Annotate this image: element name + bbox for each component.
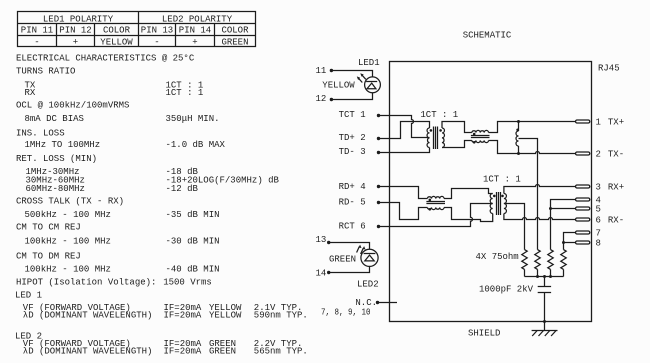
RJ45 contact pad pin 1 bbox=[576, 120, 590, 123]
svg-text:11: 11 bbox=[316, 66, 327, 76]
pin 6 label bbox=[596, 215, 625, 225]
resistor R1 75ohm bbox=[522, 250, 527, 270]
svg-text:PIN 14: PIN 14 bbox=[179, 25, 211, 35]
svg-text:HIPOT (Isolation Voltage):: HIPOT (Isolation Voltage): bbox=[16, 278, 156, 288]
wire pad5 lead bbox=[551, 208, 576, 210]
LED1 symbol bbox=[357, 73, 381, 93]
resistor R2 75ohm bbox=[535, 250, 540, 270]
common-mode choke CMC1 core bbox=[471, 136, 490, 138]
svg-text:LED1: LED1 bbox=[358, 58, 380, 68]
svg-text:YELLOW: YELLOW bbox=[322, 81, 355, 91]
junction dot TX- / autotransformer bottom bbox=[517, 152, 520, 155]
LED polarity table text bbox=[21, 15, 249, 48]
N.C. pins label, dot and lead bbox=[321, 298, 397, 317]
RJ45 contact pad pin 8 bbox=[576, 241, 590, 244]
svg-text:TD- 3: TD- 3 bbox=[339, 147, 366, 157]
svg-text:RX-: RX- bbox=[608, 215, 624, 225]
svg-text:SHIELD: SHIELD bbox=[468, 329, 500, 339]
CMC2 polarity dots bbox=[429, 199, 432, 211]
common-mode choke CMC1 bottom winding bbox=[472, 141, 489, 143]
svg-text:GREEN: GREEN bbox=[221, 37, 248, 47]
module outline box bbox=[390, 62, 592, 322]
resistor R3 75ohm bbox=[548, 250, 553, 270]
wire pad8 lead bbox=[564, 242, 576, 244]
resistor R4 75ohm bbox=[561, 250, 566, 270]
svg-text:1: 1 bbox=[596, 117, 601, 127]
transformer T1 primary winding bbox=[427, 128, 429, 148]
pin TD+2 label, dot and lead bbox=[339, 133, 390, 143]
pin TD-3 label, dot and lead bbox=[339, 147, 390, 157]
wire rail to capacitor C1 bbox=[544, 277, 546, 287]
svg-text:-40 dB MIN: -40 dB MIN bbox=[166, 265, 220, 275]
wire TD- to T1 primary bottom bbox=[390, 148, 430, 153]
wire RD- to CMC2 bottom bbox=[390, 203, 427, 220]
RJ45 contact pad pin 2 bbox=[576, 152, 590, 155]
chassis ground symbol bbox=[532, 331, 558, 337]
svg-text:CM TO DM REJ: CM TO DM REJ bbox=[16, 252, 81, 262]
svg-text:1CT : 1: 1CT : 1 bbox=[420, 110, 458, 120]
common-mode choke CMC2 core bbox=[426, 202, 445, 204]
wire LED2 cathode to pin14 bbox=[329, 266, 370, 272]
pin RD-5 label, dot and lead bbox=[339, 198, 390, 208]
transformer T2 core bbox=[497, 192, 501, 215]
svg-text:RET. LOSS (MIN): RET. LOSS (MIN) bbox=[16, 154, 97, 164]
svg-text:-35 dB MIN: -35 dB MIN bbox=[166, 210, 220, 220]
wire capacitor C1 to shield bbox=[544, 293, 546, 331]
junction dot TX+ / autotransformer top bbox=[517, 120, 520, 123]
CMC1 polarity dots bbox=[473, 133, 476, 144]
resistor R2 bottom lead bbox=[537, 269, 539, 276]
svg-text:PIN 12: PIN 12 bbox=[59, 25, 91, 35]
svg-text:RJ45: RJ45 bbox=[598, 64, 620, 74]
transformer T2 secondary winding bbox=[504, 194, 507, 214]
TX autotransformer winding bbox=[516, 122, 519, 154]
svg-text:LED 1: LED 1 bbox=[15, 291, 42, 301]
svg-text:-: - bbox=[154, 37, 159, 47]
wire TCT to T1 primary center tap (hops TD+) bbox=[390, 116, 430, 138]
pin RCT6 label, dot and lead bbox=[339, 222, 390, 232]
wire T1 secondary bottom to CMC1 bbox=[442, 141, 472, 148]
svg-text:TX+: TX+ bbox=[608, 117, 624, 127]
svg-text:LED1 POLARITY: LED1 POLARITY bbox=[43, 15, 114, 25]
svg-text:1CT : 1: 1CT : 1 bbox=[166, 88, 204, 98]
svg-text:YELLOW: YELLOW bbox=[209, 311, 242, 321]
RJ45 contact pad pin 7 bbox=[576, 231, 590, 234]
wire TX center tap to resistor R2 bbox=[519, 139, 538, 250]
wire pins 4/5 to resistor R3 bbox=[550, 209, 552, 250]
junction dot pins 4/5 bbox=[549, 207, 552, 210]
svg-text:IF=20mA: IF=20mA bbox=[164, 311, 202, 321]
svg-text:500kHz - 100 MHz: 500kHz - 100 MHz bbox=[25, 210, 111, 220]
svg-text:14: 14 bbox=[316, 269, 327, 279]
wire T2 secondary bottom to pad 6 (RX-, hops three drops) bbox=[504, 214, 576, 220]
pin 5 label bbox=[596, 204, 601, 214]
svg-text:2: 2 bbox=[596, 149, 601, 159]
transformer T1 secondary winding bbox=[442, 128, 444, 148]
svg-text:12: 12 bbox=[316, 94, 327, 104]
svg-text:8mA DC BIAS: 8mA DC BIAS bbox=[25, 114, 84, 124]
wire TD+ to T1 primary top bbox=[390, 122, 430, 139]
pin TCT1 label, dot and lead bbox=[339, 110, 390, 120]
wire RCT to T2 primary center tap (hops CMC2 out) bbox=[390, 204, 493, 227]
pin 4 label bbox=[596, 195, 601, 205]
wire CMC2 bottom to T2 primary bottom bbox=[444, 208, 493, 222]
svg-text:CM TO CM REJ: CM TO CM REJ bbox=[16, 223, 81, 233]
RJ45 contact pad pin 5 bbox=[576, 207, 590, 210]
svg-text:TCT 1: TCT 1 bbox=[339, 110, 366, 120]
svg-text:RCT 6: RCT 6 bbox=[339, 222, 366, 232]
RJ45 contact pad pin 3 bbox=[576, 185, 590, 188]
common-mode choke CMC2 bottom winding bbox=[427, 208, 444, 210]
svg-text:4X 75ohm: 4X 75ohm bbox=[476, 252, 519, 262]
wire T2 secondary top to pad 3 (RX+, hops TX drop) bbox=[504, 185, 576, 194]
common-mode choke CMC2 top winding bbox=[427, 196, 444, 198]
resistor R4 bottom lead bbox=[563, 269, 565, 276]
svg-text:100kHz - 100 MHz: 100kHz - 100 MHz bbox=[25, 265, 111, 275]
svg-text:TURNS RATIO: TURNS RATIO bbox=[16, 66, 75, 76]
svg-text:RD- 5: RD- 5 bbox=[339, 198, 366, 208]
pin 1 label bbox=[596, 117, 625, 127]
pin 8 label bbox=[596, 238, 601, 248]
svg-text:LED2 POLARITY: LED2 POLARITY bbox=[162, 15, 233, 25]
svg-text:-: - bbox=[34, 37, 39, 47]
svg-text:3: 3 bbox=[596, 182, 601, 192]
LED polarity table grid bbox=[18, 12, 256, 47]
resistor R3 bottom lead bbox=[550, 269, 552, 276]
LED2 symbol bbox=[357, 245, 379, 267]
svg-text:+: + bbox=[192, 37, 197, 47]
svg-text:COLOR: COLOR bbox=[221, 25, 249, 35]
svg-text:GREEN: GREEN bbox=[329, 255, 356, 265]
junction dot pins 7/8 bbox=[562, 241, 565, 244]
resistor R1 bottom lead bbox=[524, 269, 526, 276]
wire RD+ to CMC2 top bbox=[390, 187, 427, 199]
rail junction dots bbox=[536, 275, 552, 278]
wire T1 secondary top to CMC1 bbox=[442, 122, 472, 133]
wire pad4 to pad5 junction bbox=[551, 200, 576, 209]
transformer T2 primary winding bbox=[490, 194, 493, 214]
svg-text:-30 dB MIN: -30 dB MIN bbox=[166, 236, 220, 246]
svg-text:λD (DOMINANT WAVELENGTH): λD (DOMINANT WAVELENGTH) bbox=[23, 347, 153, 357]
svg-text:IF=20mA: IF=20mA bbox=[164, 347, 202, 357]
svg-text:PIN 13: PIN 13 bbox=[141, 25, 173, 35]
svg-text:OCL @ 100kHz/100mVRMS: OCL @ 100kHz/100mVRMS bbox=[16, 100, 129, 110]
svg-text:LED2: LED2 bbox=[357, 280, 379, 290]
TX autotransformer polarity dot bbox=[516, 129, 519, 132]
LED1 pin 12 label and dot bbox=[316, 94, 334, 104]
svg-text:SCHEMATIC: SCHEMATIC bbox=[463, 31, 512, 41]
wire CMC2 top to T2 primary top bbox=[444, 189, 493, 199]
svg-text:PIN 11: PIN 11 bbox=[21, 25, 53, 35]
common-mode choke CMC1 top winding bbox=[472, 130, 489, 132]
svg-text:λD (DOMINANT WAVELENGTH): λD (DOMINANT WAVELENGTH) bbox=[23, 311, 153, 321]
svg-text:1MHz TO 100MHz: 1MHz TO 100MHz bbox=[25, 140, 101, 150]
svg-text:5: 5 bbox=[596, 204, 601, 214]
transformer T1 polarity dots bbox=[430, 129, 442, 132]
wire LED1 cathode to pin12 bbox=[331, 93, 372, 100]
svg-text:ELECTRICAL CHARACTERISTICS @ 2: ELECTRICAL CHARACTERISTICS @ 25°C bbox=[16, 54, 195, 64]
junction dot shield / box bottom bbox=[543, 320, 546, 323]
wire pad7 to pad8 junction bbox=[564, 233, 576, 243]
capacitor C1 plates bbox=[538, 287, 551, 293]
RJ45 contact pad pin 6 bbox=[576, 218, 590, 221]
svg-text:-12 dB: -12 dB bbox=[166, 184, 199, 194]
pin 3 label bbox=[596, 182, 625, 192]
svg-text:1000pF 2kV: 1000pF 2kV bbox=[479, 285, 534, 295]
LED1 pin 11 label and dot bbox=[316, 66, 334, 76]
wire pins 7/8 to resistor R4 bbox=[563, 243, 565, 250]
transformer T2 polarity dots bbox=[493, 195, 504, 198]
common termination rail bbox=[525, 276, 564, 278]
wire pin11 to LED1 anode bbox=[331, 71, 372, 77]
svg-text:RX+: RX+ bbox=[608, 182, 624, 192]
svg-text:6: 6 bbox=[596, 215, 601, 225]
svg-text:-1.0 dB MAX: -1.0 dB MAX bbox=[166, 140, 226, 150]
svg-text:INS. LOSS: INS. LOSS bbox=[16, 129, 65, 139]
svg-text:7, 8, 9, 10: 7, 8, 9, 10 bbox=[321, 307, 371, 317]
svg-text:COLOR: COLOR bbox=[103, 25, 131, 35]
svg-text:565nm TYP.: 565nm TYP. bbox=[254, 347, 308, 357]
svg-text:RX: RX bbox=[25, 88, 36, 98]
svg-text:13: 13 bbox=[316, 235, 327, 245]
svg-text:GREEN: GREEN bbox=[209, 347, 236, 357]
electrical characteristics list bbox=[15, 54, 308, 357]
pin 7 label bbox=[596, 228, 601, 238]
RJ45 contact pad pin 4 bbox=[576, 198, 590, 201]
pin RD+4 label, dot and lead bbox=[339, 182, 390, 192]
svg-text:100kHz - 100 MHz: 100kHz - 100 MHz bbox=[25, 236, 111, 246]
svg-text:+: + bbox=[73, 37, 78, 47]
svg-text:60MHz-80MHz: 60MHz-80MHz bbox=[26, 184, 85, 194]
wire pin13 to LED2 anode bbox=[329, 243, 370, 250]
LED2 pin 14 label and dot bbox=[316, 269, 331, 279]
wire CMC1 top to pad 1 (TX+) bbox=[489, 122, 576, 133]
svg-text:1CT : 1: 1CT : 1 bbox=[483, 175, 521, 185]
svg-text:RD+ 4: RD+ 4 bbox=[339, 182, 366, 192]
svg-text:CROSS TALK (TX - RX): CROSS TALK (TX - RX) bbox=[16, 197, 124, 207]
svg-text:YELLOW: YELLOW bbox=[100, 37, 133, 47]
transformer T1 core bbox=[434, 127, 438, 150]
wire T2 secondary center tap to resistor R1 bbox=[504, 204, 525, 250]
LED2 pin 13 label and dot bbox=[316, 235, 331, 245]
svg-text:590nm TYP.: 590nm TYP. bbox=[254, 311, 308, 321]
svg-text:8: 8 bbox=[596, 238, 601, 248]
svg-text:7: 7 bbox=[596, 228, 601, 238]
svg-text:1500 Vrms: 1500 Vrms bbox=[163, 278, 212, 288]
svg-text:TD+ 2: TD+ 2 bbox=[339, 133, 366, 143]
wire CMC1 bottom to pad 2 (TX-, hops center-tap drop) bbox=[489, 141, 576, 154]
svg-text:350μH MIN.: 350μH MIN. bbox=[166, 114, 220, 124]
pin 2 label bbox=[596, 149, 625, 159]
svg-text:TX-: TX- bbox=[608, 149, 624, 159]
